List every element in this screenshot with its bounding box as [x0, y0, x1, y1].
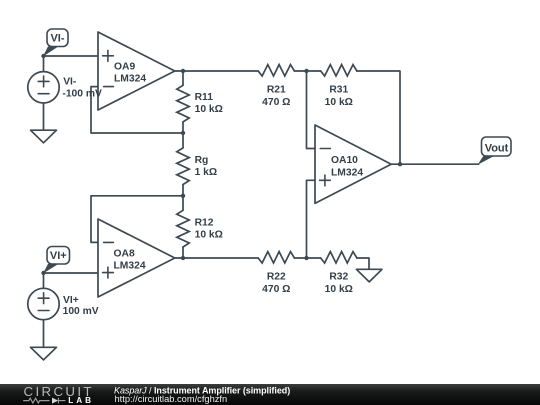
svg-text:VI-: VI-	[50, 33, 64, 45]
svg-text:10 kΩ: 10 kΩ	[325, 97, 353, 108]
svg-text:10 kΩ: 10 kΩ	[195, 230, 223, 241]
svg-text:1 kΩ: 1 kΩ	[195, 167, 218, 178]
svg-text:VI+: VI+	[50, 250, 67, 262]
svg-text:R11: R11	[195, 92, 214, 103]
svg-text:R31: R31	[329, 85, 348, 96]
svg-text:OA9: OA9	[114, 62, 135, 73]
svg-text:R12: R12	[195, 218, 214, 229]
svg-text:100 mV: 100 mV	[63, 306, 99, 317]
svg-text:LAB: LAB	[68, 396, 94, 405]
svg-text:10 kΩ: 10 kΩ	[195, 104, 223, 115]
svg-text:10 kΩ: 10 kΩ	[325, 284, 353, 295]
svg-text:VI-: VI-	[63, 76, 77, 87]
svg-text:R22: R22	[267, 272, 286, 283]
svg-text:470 Ω: 470 Ω	[262, 97, 290, 108]
svg-text:OA10: OA10	[331, 155, 358, 166]
svg-text:LM324: LM324	[331, 168, 363, 179]
svg-text:Rg: Rg	[195, 155, 209, 166]
svg-text:http://circuitlab.com/cfghzfn: http://circuitlab.com/cfghzfn	[115, 394, 228, 404]
svg-text:OA8: OA8	[114, 249, 135, 260]
svg-text:R21: R21	[267, 85, 286, 96]
svg-text:-100 mV: -100 mV	[62, 89, 102, 100]
svg-text:Vout: Vout	[485, 143, 509, 155]
svg-text:470 Ω: 470 Ω	[262, 284, 290, 295]
svg-text:VI+: VI+	[63, 295, 79, 306]
svg-text:LM324: LM324	[114, 261, 146, 272]
svg-text:R32: R32	[329, 272, 348, 283]
svg-text:LM324: LM324	[114, 74, 146, 85]
